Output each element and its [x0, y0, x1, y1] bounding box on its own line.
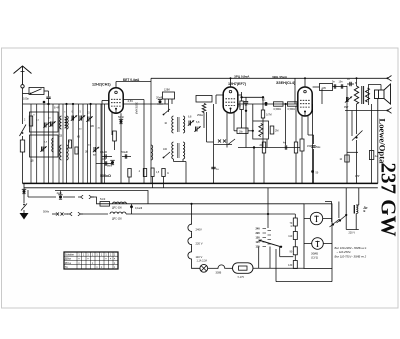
resistor: [162, 169, 169, 188]
svg-text:50нФ: 50нФ: [122, 150, 128, 154]
svg-text:0,1мФ: 0,1мФ: [135, 207, 142, 210]
svg-text:8мФ: 8мФ: [107, 165, 112, 168]
junction: [285, 103, 287, 105]
svg-text:ДВ: ДВ: [31, 161, 35, 163]
svg-text:220 V: 220 V: [349, 232, 356, 235]
svg-text:150: 150: [256, 237, 261, 240]
wire: [150, 78, 152, 183]
power note line2: [337, 250, 352, 254]
svg-text:500кΩ: 500кΩ: [100, 174, 111, 178]
svg-text:50Hz: 50Hz: [43, 210, 50, 214]
resistor 20k: [259, 142, 265, 153]
wire: [377, 99, 379, 184]
label: [33, 115, 35, 117]
svg-text:Schalter: Schalter: [65, 253, 74, 256]
resistor (V1 bias): [113, 131, 117, 150]
wire: [81, 213, 109, 215]
capacitor 50nF: [122, 150, 132, 159]
wire: [92, 197, 192, 204]
capacitor 50uF: [308, 135, 321, 183]
rectifier 30ИБ(CY1): [304, 238, 332, 250]
resistor: [75, 147, 78, 154]
label anode current: [123, 78, 140, 82]
capacitor 1n + trimmer: [347, 78, 351, 86]
wire: [242, 96, 263, 98]
svg-text:2М: 2М: [275, 130, 278, 133]
label current: [234, 75, 250, 79]
transformer secondary: [366, 88, 370, 102]
antenna terminal: [21, 85, 24, 88]
wire: V1 grid left: [102, 101, 109, 184]
wire: [371, 104, 373, 183]
resistor: [68, 140, 71, 148]
wire: V1 pin: [111, 112, 113, 136]
resistor 20k (V2 cath): [234, 124, 253, 134]
svg-text:220: 220: [256, 232, 261, 235]
wire: V3 anode: [304, 78, 306, 87]
svg-text:~ 110-250V-: ~ 110-250V-: [337, 250, 352, 254]
plug contacts 2: [67, 212, 83, 216]
capacitor 4uF: [57, 191, 63, 199]
wire: AF line: [238, 147, 300, 149]
label: [93, 154, 96, 157]
switch S1 (antenna): [23, 88, 45, 95]
transformer core: [362, 86, 364, 104]
wire: [313, 84, 354, 87]
switch contact (right): [352, 131, 363, 141]
resistor (screen): [240, 97, 248, 128]
svg-text:ЗВ: ЗВ: [85, 152, 88, 154]
wire: AVC/grid bus: [23, 103, 169, 105]
label: [24, 120, 26, 122]
svg-text:0,7М: 0,7М: [266, 114, 272, 117]
svg-text:Ω: Ω: [291, 226, 293, 228]
svg-text:ЗЕЛЕНАЯ: ЗЕЛЕНАЯ: [135, 102, 139, 114]
capacitor 0,1uF: [96, 158, 112, 166]
wire: [338, 202, 340, 219]
svg-text:0,1: 0,1: [262, 98, 266, 102]
svg-text:0,5МΩ: 0,5МΩ: [288, 108, 296, 111]
label: [98, 128, 101, 130]
plug contact (bottom): [387, 108, 392, 114]
wire: [203, 113, 205, 129]
svg-text:З00В: З00В: [216, 272, 222, 275]
wire: [286, 104, 296, 145]
svg-text:100p: 100p: [23, 97, 29, 101]
core T1: [178, 117, 180, 132]
label 237 GW: [377, 163, 400, 237]
trimmer C (osc1): [40, 146, 46, 151]
resistor ladder R70: [290, 218, 298, 228]
label: [164, 122, 167, 125]
svg-text:240V: 240V: [196, 228, 202, 232]
padder box: [196, 96, 212, 103]
trimmer C4: [93, 147, 99, 152]
wire: [213, 104, 215, 183]
resistor 0,2M: [270, 126, 278, 134]
wire: [294, 78, 296, 104]
trimmer C6: [194, 121, 200, 132]
capacitor 5n: [332, 81, 336, 89]
wire: [259, 247, 270, 269]
wire: [192, 203, 305, 205]
svg-text:Ω: Ω: [167, 173, 169, 175]
wire: [226, 267, 232, 269]
resistor ladder R130: [288, 261, 297, 269]
wire: [267, 188, 295, 215]
switch contacts under V2: [214, 139, 235, 145]
label 50Hz: [43, 210, 50, 214]
label: [90, 125, 95, 128]
socket 240V: [188, 223, 202, 233]
wire: [168, 99, 170, 112]
wire: [192, 260, 200, 269]
label: [88, 145, 91, 147]
IF transformer T1 primary: [172, 116, 174, 133]
svg-text:240: 240: [256, 228, 261, 231]
svg-text:У-175: У-175: [238, 276, 245, 279]
capacitor: [211, 167, 219, 171]
label: [36, 120, 40, 122]
wire: [238, 94, 242, 96]
label 220V: [349, 232, 356, 235]
svg-text:150: 150: [307, 145, 312, 148]
resistor in box: [29, 116, 32, 126]
coil box L5/L6: [30, 135, 59, 157]
mains switch contact 2: [337, 214, 348, 223]
svg-text:ТА: ТА: [65, 266, 68, 269]
plug contact (top): [387, 76, 392, 82]
label: [79, 129, 82, 131]
voltage selector taps: [256, 228, 272, 249]
svg-text:12Н2(СН1): 12Н2(СН1): [92, 83, 111, 87]
choke ДРС: [112, 202, 127, 209]
label rectifier: [311, 252, 318, 260]
svg-text:220 V: 220 V: [196, 242, 203, 246]
svg-text:237 GW: 237 GW: [377, 163, 400, 237]
wire: [346, 214, 359, 230]
svg-text:54-Я: 54-Я: [100, 198, 105, 201]
svg-text:125: 125: [256, 241, 261, 244]
coil L8: [65, 117, 67, 128]
wire: return bus: [24, 187, 378, 189]
resistor 0,5M: [274, 102, 284, 111]
label: [355, 175, 360, 178]
wire: [207, 112, 214, 142]
tube V1 12Н2(СН1): [109, 88, 123, 113]
wire: [346, 86, 348, 184]
wire: V2 grid stub: [216, 95, 223, 104]
resistor ladder R110: [288, 232, 297, 240]
svg-text:В: В: [364, 209, 366, 213]
wire: bottom mains: [253, 267, 304, 269]
wire: [126, 214, 268, 228]
resistor (ant) 1M: [20, 136, 24, 183]
coil L4: [67, 116, 69, 129]
label Loewe/Opta: [378, 119, 388, 165]
oscillator coil box: [163, 89, 175, 105]
wire: V3 pins: [302, 116, 308, 139]
trimmer C (band1): [43, 122, 49, 127]
wire: [241, 92, 243, 97]
wire: [275, 249, 277, 282]
svg-text:ЗВЦ З5мА: ЗВЦ З5мА: [272, 75, 288, 79]
wire: lower return: [276, 269, 332, 282]
wire: [356, 78, 358, 86]
resistor 0,7M: [261, 97, 271, 147]
wire: V2 pins: [227, 113, 234, 148]
wire: [143, 100, 145, 184]
resistor 54n: [100, 198, 110, 206]
label: [64, 112, 66, 114]
resistor (in loop): [259, 124, 263, 137]
wire: V2 anode: [230, 78, 232, 87]
wire: [174, 159, 187, 162]
label V3: [276, 81, 296, 85]
socket 110V: [188, 245, 203, 259]
capacitor (line filter): [22, 183, 26, 203]
svg-text:Вкл 110-750 (~ З0ИБ нч 2: Вкл 110-750 (~ З0ИБ нч 2: [335, 254, 367, 258]
wire: mains tap drop: [190, 203, 192, 223]
socket 220V: [188, 233, 203, 246]
resistor ladder R90: [290, 247, 298, 255]
wire: [22, 104, 24, 124]
svg-text:20пФ: 20пФ: [156, 96, 162, 100]
svg-text:Др: Др: [364, 206, 368, 210]
capacitor 20uF: [156, 96, 163, 105]
coil L6: [60, 145, 62, 160]
svg-text:110: 110: [256, 246, 261, 249]
label: [85, 152, 88, 154]
capacitor 0,1uF (line): [130, 204, 142, 214]
switch (waveband) S2: [20, 125, 27, 137]
wire: [22, 88, 24, 104]
resistor 250: [197, 104, 206, 118]
svg-text:В 4Я: В 4Я: [54, 107, 60, 110]
wire: [345, 110, 388, 112]
wire: B+ top rail: [151, 77, 388, 79]
junction: [262, 96, 264, 98]
svg-text:Loewe/Opta: Loewe/Opta: [378, 119, 388, 165]
trimmer C3: [86, 112, 92, 122]
coil L7: [67, 145, 69, 160]
tone pot arrow: [344, 96, 352, 109]
wire: detector line: [238, 103, 298, 105]
potentiometer 500k (volume): [100, 169, 131, 183]
label: [48, 118, 51, 120]
svg-text:130: 130: [288, 264, 293, 267]
wire: [254, 148, 296, 184]
svg-text:ДРС-300: ДРС-300: [112, 207, 122, 210]
trimmer C5: [188, 116, 194, 126]
wire: [52, 213, 68, 215]
junction: [252, 130, 254, 132]
svg-text:Вкл 100-230V~ З0ИБ нч.1: Вкл 100-230V~ З0ИБ нч.1: [335, 246, 367, 250]
wire: [312, 104, 314, 135]
svg-text:4мФ: 4мФ: [57, 191, 62, 195]
svg-text:250м: 250м: [197, 114, 203, 117]
power note line1: [335, 246, 367, 250]
label: [54, 107, 60, 110]
resistor 30k: [138, 169, 147, 177]
capacitor 8uF: [107, 160, 115, 167]
capacitor 50nF (V1 cathode): [118, 113, 124, 183]
svg-text:50м: 50м: [316, 146, 321, 149]
resistor 150: [300, 139, 312, 183]
wire: [266, 139, 268, 148]
coil box L1/L2: [30, 112, 59, 132]
switch (mains): [21, 204, 27, 214]
choke ДР (heater): [354, 205, 367, 214]
wire: ladder spine: [294, 214, 296, 269]
IF transformer T1 secondary: [183, 116, 185, 133]
svg-text:ЗЗЕН(СL4): ЗЗЕН(СL4): [276, 81, 296, 85]
switch contacts: [56, 213, 64, 216]
wire: [356, 188, 359, 205]
svg-text:РЕГ: РЕГ: [344, 106, 349, 109]
wire: tuner section verticals: [31, 104, 105, 183]
label: [59, 136, 63, 138]
svg-text:4,5Г: 4,5Г: [355, 175, 360, 178]
svg-text:ЗРЦ 0,8мА: ЗРЦ 0,8мА: [234, 75, 250, 79]
resistor 1,5k: [151, 168, 160, 177]
trimmer C1: [71, 111, 77, 121]
plug contacts: [78, 195, 94, 199]
label: [163, 148, 168, 151]
switch contact: [163, 152, 170, 158]
barretter У-175: [233, 263, 254, 279]
capacitor 0,1uF: [100, 150, 112, 159]
wire: [325, 202, 332, 223]
label: [44, 142, 48, 144]
wire: [185, 162, 187, 184]
wire: [321, 89, 323, 105]
coil L5: [52, 138, 54, 152]
lamp (pilot): [197, 260, 208, 273]
capacitor 4n: [283, 142, 287, 150]
wire: filter row A: [55, 191, 148, 204]
capacitor (antenna coupling) 100p: [23, 91, 51, 104]
svg-text:(СУ1): (СУ1): [311, 256, 318, 260]
power note line3: [335, 254, 367, 258]
wire: heater tap: [280, 247, 294, 257]
svg-text:КВ: КВ: [77, 137, 80, 139]
feedback loop: [253, 121, 269, 139]
wire: [252, 104, 254, 121]
tube V2 12Н7(ЕF7): [223, 87, 238, 113]
svg-text:100: 100: [163, 148, 168, 151]
svg-text:1,1А 2,2А: 1,1А 2,2А: [197, 260, 208, 263]
label: [69, 142, 71, 144]
svg-text:110: 110: [288, 235, 293, 238]
wire: [123, 99, 144, 101]
label: [77, 137, 80, 139]
label: [31, 161, 35, 163]
label 4,5V: [128, 99, 134, 103]
capacitor 10n: [339, 81, 344, 89]
wire: [208, 267, 217, 269]
svg-text:ДВ/св: ДВ/св: [65, 259, 72, 261]
svg-text:0,5МΩ: 0,5МΩ: [274, 108, 282, 111]
wire: chassis bus: [23, 182, 378, 184]
choke ДРС 2: [110, 212, 126, 221]
svg-text:10н: 10н: [339, 81, 344, 84]
node A (grid line): [47, 103, 49, 105]
label V2: [228, 82, 247, 86]
svg-text:0,1пФ: 0,1пФ: [100, 150, 107, 154]
capacitor 10n (right): [339, 152, 358, 162]
label V1: [92, 83, 111, 87]
speaker: [375, 84, 391, 104]
wire: [352, 104, 357, 183]
wire: [63, 196, 75, 198]
label (green wire): [135, 102, 139, 114]
svg-text:СВ: СВ: [59, 136, 63, 138]
box 105: [320, 84, 333, 91]
ground: [20, 213, 29, 220]
wire: V1 anode to rail: [116, 82, 151, 88]
capacitor 6n: [238, 97, 248, 147]
resistor 0,5M (2): [288, 102, 298, 111]
wire: osc coil: [151, 145, 153, 160]
dial lamp: [304, 212, 332, 224]
switch contact: [163, 109, 170, 115]
fuse 200: [216, 265, 226, 275]
capacitor 0,1 (coupling): [262, 98, 267, 107]
svg-text:12Вб: 12Вб: [164, 89, 170, 92]
wire: speaker loop: [369, 85, 382, 106]
wire: [28, 190, 56, 197]
power box: [304, 204, 332, 269]
trimmer C2: [79, 111, 85, 121]
svg-text:110 V: 110 V: [196, 255, 203, 259]
resistor (field coil): [354, 82, 358, 104]
wire: [152, 177, 154, 188]
wire: [345, 188, 347, 230]
mains switch contact 1: [330, 219, 340, 227]
resistor: [294, 142, 297, 153]
IF transformer T2 secondary: [183, 142, 185, 159]
tube V3 ЗЗЕН(СL4): [298, 87, 312, 116]
svg-text:ДРС-150: ДРС-150: [112, 218, 122, 221]
svg-text:КВ 1а: КВ 1а: [65, 263, 72, 265]
selector arm: [259, 239, 283, 248]
capacitor 50n: [311, 135, 319, 183]
IF transformer T2 primary: [172, 142, 174, 159]
table (band switch): [64, 252, 118, 269]
junction: [240, 96, 242, 98]
svg-text:380: 380: [90, 125, 95, 128]
label current: [272, 75, 288, 79]
junction: [253, 146, 255, 148]
capacitor (output): [369, 151, 378, 160]
antenna: [14, 66, 32, 85]
coil L3: [60, 116, 62, 129]
trimmer C (band2): [49, 121, 55, 126]
junction dots: [43, 101, 92, 105]
core T2: [178, 143, 180, 158]
